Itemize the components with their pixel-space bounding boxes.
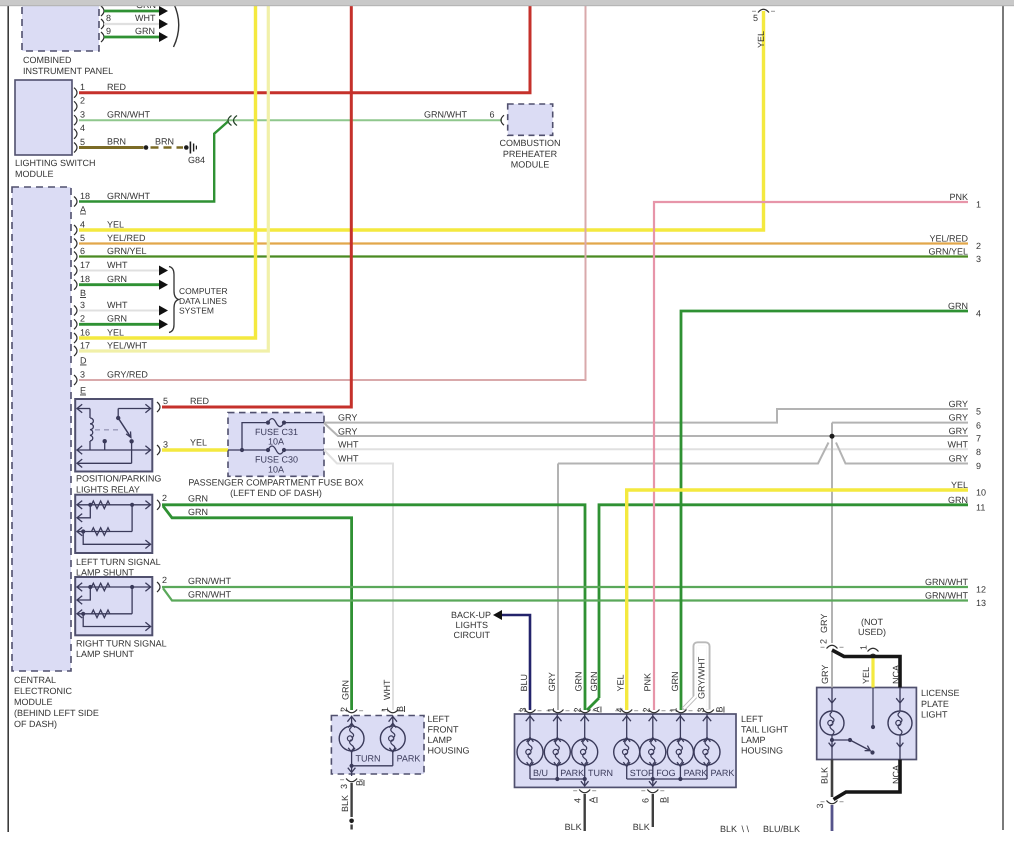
pin 8 combined panel: [101, 19, 104, 29]
svg-text:2: 2: [573, 707, 583, 712]
svg-text:YEL: YEL: [861, 667, 871, 684]
svg-text:1: 1: [80, 82, 85, 92]
svg-text:PARK: PARK: [684, 768, 708, 778]
pin 2 license: [827, 645, 838, 648]
ground G84: [184, 145, 189, 150]
svg-text:GRY: GRY: [547, 672, 557, 691]
svg-text:GRY/WHT: GRY/WHT: [696, 656, 706, 699]
svg-text:GRN/YEL: GRN/YEL: [107, 246, 147, 256]
svg-text:5: 5: [753, 13, 758, 23]
wire GRY fuse second output line 7: [324, 423, 968, 436]
svg-text:SYSTEM: SYSTEM: [179, 306, 214, 316]
svg-text:4: 4: [615, 707, 625, 712]
svg-text:GRN: GRN: [107, 274, 127, 284]
svg-text:GRN/WHT: GRN/WHT: [107, 191, 150, 201]
svg-text:LICENSE: LICENSE: [921, 688, 960, 698]
pin 3 tail GRY/WHT: [703, 710, 714, 713]
pin 3 front lamp bottom: [346, 779, 357, 782]
svg-text:LAMP SHUNT: LAMP SHUNT: [76, 568, 134, 578]
svg-text:BLU: BLU: [519, 674, 529, 692]
pin 1 tail GRN: [676, 710, 687, 713]
svg-text:10A: 10A: [268, 437, 284, 447]
svg-text:E: E: [80, 386, 86, 396]
svg-text:B: B: [659, 797, 669, 803]
wire GRY branch line 6 right: [832, 422, 968, 424]
svg-text:GRN/WHT: GRN/WHT: [424, 109, 467, 119]
svg-text:GRN: GRN: [341, 680, 351, 700]
svg-text:TAIL LIGHT: TAIL LIGHT: [741, 725, 789, 735]
svg-text:1: 1: [380, 707, 390, 712]
svg-text:12: 12: [976, 585, 986, 595]
position/parking lights relay: [75, 399, 152, 472]
svg-text:1: 1: [669, 707, 679, 712]
svg-text:LIGHTS: LIGHTS: [455, 620, 488, 630]
svg-text:GRY: GRY: [338, 413, 357, 423]
svg-text:WHT: WHT: [107, 300, 128, 310]
pin 4 central module: [74, 225, 77, 235]
svg-text:4: 4: [572, 798, 582, 803]
wire BLK license left leg: [831, 760, 834, 798]
svg-text:TURN: TURN: [356, 754, 381, 764]
svg-text:STOP: STOP: [630, 768, 654, 778]
svg-text:GRN: GRN: [188, 494, 208, 504]
pin 2 tail GRN: [580, 710, 591, 713]
tail lamp PARK at x=680.4: [679, 714, 681, 740]
pin 2 left shunt: [157, 500, 160, 510]
svg-text:YEL/RED: YEL/RED: [107, 233, 146, 243]
svg-text:2: 2: [976, 241, 981, 251]
wire GRN to right edge 4: [681, 311, 968, 710]
svg-text:WHT: WHT: [107, 260, 128, 270]
svg-text:MODULE: MODULE: [14, 697, 53, 707]
svg-text:2: 2: [642, 707, 652, 712]
svg-text:2: 2: [819, 639, 829, 644]
pin 6 tail bottom: [647, 790, 658, 793]
svg-text:3: 3: [80, 300, 85, 310]
computer data lines brace: [169, 267, 179, 333]
svg-text:WHT: WHT: [382, 679, 392, 700]
svg-text:PARK: PARK: [560, 768, 584, 778]
svg-text:3: 3: [80, 109, 85, 119]
front lamp ground bus: [352, 765, 393, 767]
svg-text:RED: RED: [107, 82, 127, 92]
svg-text:GRY: GRY: [819, 614, 829, 633]
pin 3 tail BLU: [525, 710, 536, 713]
relay internal wiring: [77, 408, 91, 410]
pin 2 lighting switch: [74, 101, 77, 111]
svg-text:(LEFT END OF DASH): (LEFT END OF DASH): [230, 488, 322, 498]
fuse C30: [228, 449, 268, 451]
wire GRN diagonal into pin 2: [587, 698, 599, 710]
svg-text:CENTRAL: CENTRAL: [14, 675, 56, 685]
tail lamp FOG at x=652.8: [652, 714, 654, 740]
svg-text:TURN: TURN: [588, 768, 613, 778]
pin 1 lighting switch: [74, 88, 77, 98]
svg-text:YEL: YEL: [107, 327, 124, 337]
svg-text:HOUSING: HOUSING: [428, 746, 470, 756]
svg-text:LEFT TURN SIGNAL: LEFT TURN SIGNAL: [76, 557, 161, 567]
pin 2 right shunt: [157, 582, 160, 592]
svg-text:4: 4: [80, 123, 85, 133]
pin 3 lighting switch: [74, 115, 77, 125]
svg-text:YEL/RED: YEL/RED: [929, 234, 968, 244]
svg-text:GRN: GRN: [589, 672, 599, 692]
svg-text:YEL: YEL: [190, 437, 207, 447]
svg-text:4: 4: [976, 309, 981, 319]
svg-text:OF DASH): OF DASH): [14, 719, 57, 729]
svg-text:GRN: GRN: [107, 314, 127, 324]
svg-text:PREHEATER: PREHEATER: [503, 149, 558, 159]
svg-text:BACK-UP: BACK-UP: [451, 610, 491, 620]
svg-text:3: 3: [976, 254, 981, 264]
svg-text:8: 8: [976, 447, 981, 457]
svg-text:WHT: WHT: [338, 440, 359, 450]
svg-text:17: 17: [80, 340, 90, 350]
svg-text:LIGHTS RELAY: LIGHTS RELAY: [76, 485, 140, 495]
svg-text:COMBINED: COMBINED: [23, 55, 72, 65]
svg-text:RED: RED: [190, 396, 210, 406]
wire BLK tail right ground: [652, 794, 654, 827]
svg-text:A: A: [80, 205, 86, 215]
svg-text:18: 18: [80, 274, 90, 284]
svg-text:NCA: NCA: [891, 765, 901, 784]
svg-text:GRY: GRY: [820, 665, 830, 684]
svg-text:11: 11: [976, 503, 985, 513]
svg-text:YEL/WHT: YEL/WHT: [107, 340, 148, 350]
wire NCA license right leg: [834, 760, 901, 800]
wire BLU/BLK down: [831, 805, 834, 831]
svg-text:10: 10: [976, 488, 986, 498]
svg-text:GRN: GRN: [670, 672, 680, 692]
svg-text:B: B: [395, 706, 405, 712]
svg-text:GRY/RED: GRY/RED: [107, 369, 148, 379]
pin 17b central module: [74, 346, 77, 356]
relay bottom rail: [77, 462, 132, 464]
svg-text:D: D: [80, 356, 87, 366]
svg-text:GRY: GRY: [949, 399, 968, 409]
tail lamp PARK at x=707: [706, 714, 708, 740]
tail lamp TURN at x=584.7: [584, 714, 586, 740]
svg-text:BLK: BLK: [340, 795, 350, 812]
svg-text:2: 2: [80, 96, 85, 106]
tail lamp B/U at x=530: [529, 714, 531, 740]
pin 2 front lamp housing: [346, 710, 357, 713]
svg-text:BRN: BRN: [107, 137, 126, 147]
svg-text:GRN: GRN: [574, 672, 584, 692]
svg-text:BLK: BLK: [565, 822, 582, 832]
svg-text:RIGHT TURN SIGNAL: RIGHT TURN SIGNAL: [76, 639, 167, 649]
svg-text:FRONT: FRONT: [428, 725, 459, 735]
svg-text:5: 5: [163, 396, 168, 406]
svg-text:GRN/WHT: GRN/WHT: [188, 576, 231, 586]
pin 3 relay: [157, 445, 160, 455]
svg-text:GRN/YEL: GRN/YEL: [928, 247, 968, 257]
svg-text:3: 3: [339, 784, 349, 789]
tail lamp PARK at x=557.3: [556, 714, 558, 740]
svg-text:LEFT: LEFT: [428, 714, 451, 724]
wire YEL license not used: [871, 658, 874, 688]
combustion preheater module: [508, 104, 553, 135]
svg-text:A: A: [592, 706, 602, 712]
svg-text:(BEHIND LEFT SIDE: (BEHIND LEFT SIDE: [14, 708, 99, 718]
pin 2 tail PNK: [649, 710, 660, 713]
svg-text:FUSE C31: FUSE C31: [255, 427, 298, 437]
pin 1 license not used: [868, 648, 879, 656]
left tail light lamp housing: [515, 714, 737, 787]
svg-text:3: 3: [163, 439, 168, 449]
pin 3c central module: [74, 375, 77, 385]
svg-text:2: 2: [162, 575, 167, 585]
svg-text:1: 1: [546, 707, 556, 712]
svg-text:GRY: GRY: [949, 413, 968, 423]
svg-text:GRY: GRY: [949, 454, 968, 464]
svg-text:YEL: YEL: [616, 674, 626, 691]
svg-text:COMBUSTION: COMBUSTION: [499, 138, 560, 148]
svg-text:2: 2: [80, 314, 85, 324]
left turn signal lamp shunt: [75, 495, 152, 553]
group arc: [174, 3, 179, 47]
wire WHT pin 8: [104, 23, 159, 25]
wire GRY license pigtail: [831, 652, 833, 688]
pin 3b central module: [74, 306, 77, 316]
right turn signal lamp shunt: [75, 577, 152, 635]
svg-text:FOG: FOG: [656, 768, 676, 778]
svg-text:GRN/WHT: GRN/WHT: [188, 590, 231, 600]
relay mid rail to pin 3: [77, 449, 151, 451]
svg-text:GRN: GRN: [948, 495, 968, 505]
pin 2 central module: [74, 319, 77, 329]
wire BLK front lamp ground: [350, 783, 352, 817]
wire GRY fuse C31 output to right edge 5 and 6: [324, 409, 968, 423]
left shunt internal resistors: [77, 504, 151, 506]
svg-text:PLATE: PLATE: [921, 699, 949, 709]
lighting switch module: [15, 80, 72, 155]
tail right bus: [627, 778, 707, 780]
svg-text:PARK: PARK: [711, 768, 735, 778]
svg-text:LEFT: LEFT: [741, 714, 764, 724]
wire YEL to right edge 10: [627, 490, 968, 710]
turn lamp: [351, 716, 353, 727]
svg-text:YEL: YEL: [951, 480, 968, 490]
wire NCA thick from pin 2: [832, 650, 900, 688]
svg-text:G84: G84: [188, 155, 205, 165]
svg-text:HOUSING: HOUSING: [741, 746, 783, 756]
wire BLK tail left ground: [584, 794, 586, 831]
splice dot on BRN: [144, 145, 149, 150]
svg-text:1: 1: [976, 200, 981, 210]
pin 18b central module: [74, 280, 77, 290]
wire GRN combined panel top pin: [101, 6, 104, 16]
svg-text:6: 6: [976, 420, 981, 430]
svg-text:WHT: WHT: [135, 13, 156, 23]
wire WHT fuse C30 output line 8: [324, 448, 968, 450]
wire WHT fuse C30 second output to front lamp: [324, 450, 393, 710]
svg-text:3: 3: [518, 707, 528, 712]
svg-text:8: 8: [106, 13, 111, 23]
svg-text:BRN: BRN: [155, 137, 174, 147]
svg-text:GRN/WHT: GRN/WHT: [107, 109, 150, 119]
yellow stub contact: [872, 688, 874, 728]
license plate light: [817, 688, 917, 760]
svg-text:LAMP SHUNT: LAMP SHUNT: [76, 649, 134, 659]
svg-text:WHT: WHT: [338, 454, 359, 464]
pin 18 central module: [74, 197, 77, 207]
svg-text:INSTRUMENT PANEL: INSTRUMENT PANEL: [23, 66, 113, 76]
svg-text:3: 3: [696, 707, 706, 712]
svg-text:3: 3: [80, 369, 85, 379]
svg-text:LAMP: LAMP: [428, 735, 453, 745]
svg-text:POSITION/PARKING: POSITION/PARKING: [76, 474, 161, 484]
pin 4 tail YEL: [621, 710, 632, 713]
svg-text:WHT: WHT: [948, 439, 969, 449]
pin 5 central module: [74, 239, 77, 249]
svg-text:9: 9: [106, 26, 111, 36]
license lamp right: [899, 688, 901, 712]
pin 1 front lamp housing: [387, 710, 398, 713]
svg-text:9: 9: [976, 461, 981, 471]
svg-text:LIGHTING SWITCH: LIGHTING SWITCH: [15, 158, 96, 168]
svg-text:GRN: GRN: [948, 301, 968, 311]
svg-text:(NOT: (NOT: [861, 617, 883, 627]
svg-text:MODULE: MODULE: [15, 169, 54, 179]
fuse C31: [266, 421, 270, 425]
wire BLU to tail pin 3: [502, 615, 530, 710]
svg-text:5: 5: [80, 233, 85, 243]
svg-text:7: 7: [976, 434, 981, 444]
svg-text:BLK: BLK: [720, 824, 737, 834]
svg-text:16: 16: [80, 327, 90, 337]
svg-text:GRN/WHT: GRN/WHT: [925, 577, 968, 587]
pin 1 tail GRY: [553, 710, 564, 713]
svg-text:NCA: NCA: [891, 665, 901, 684]
central electronic module: [12, 187, 71, 671]
svg-text:PNK: PNK: [643, 673, 653, 692]
svg-text:5: 5: [80, 137, 85, 147]
left front lamp housing: [331, 716, 424, 775]
svg-text:4: 4: [80, 219, 85, 229]
svg-text:GRN: GRN: [188, 507, 208, 517]
svg-text:2: 2: [339, 707, 349, 712]
svg-text:B: B: [80, 288, 86, 298]
pin 17 central module: [74, 266, 77, 276]
svg-text:6: 6: [80, 246, 85, 256]
wire PNK to right edge 1: [654, 202, 968, 710]
relay coil: [90, 418, 93, 441]
svg-text:YEL: YEL: [756, 31, 766, 48]
wire GRY tail pin1 branch line 9: [557, 464, 559, 711]
svg-text:3: 3: [815, 803, 825, 808]
svg-text:PNK: PNK: [949, 192, 968, 202]
combined instrument panel: [22, 0, 99, 51]
svg-text:10A: 10A: [268, 465, 284, 475]
svg-text:GRY: GRY: [949, 426, 968, 436]
svg-text:YEL: YEL: [107, 219, 124, 229]
pin 16 central module: [74, 333, 77, 343]
svg-text:GRN/WHT: GRN/WHT: [925, 591, 968, 601]
svg-text:GRN: GRN: [135, 26, 155, 36]
pin 5 lighting switch: [74, 143, 77, 153]
svg-text:13: 13: [976, 598, 986, 608]
svg-text:PARK: PARK: [397, 754, 421, 764]
relay top rail to pin 5: [118, 408, 150, 410]
park lamp: [392, 716, 394, 727]
svg-text:BLK: BLK: [820, 767, 830, 784]
tail left bus: [530, 778, 585, 780]
wire GRY vertical to license plate light: [831, 423, 833, 643]
pin 3 license: [827, 801, 838, 804]
svg-text:LAMP: LAMP: [741, 735, 766, 745]
top scrollbar strip: [0, 0, 1014, 6]
fuse box bus: [242, 423, 268, 450]
svg-text:B/U: B/U: [533, 768, 548, 778]
wire GRN/WHT loop tail pin3 to pin1: [683, 644, 708, 710]
svg-text:COMPUTER: COMPUTER: [179, 286, 228, 296]
svg-text:1: 1: [859, 645, 869, 650]
svg-text:2: 2: [162, 493, 167, 503]
right shunt internal resistors: [77, 586, 151, 588]
svg-text:6: 6: [490, 109, 495, 119]
pin 5 relay: [157, 402, 160, 412]
license lamp left: [831, 688, 833, 712]
splice dot on line 7: [830, 434, 835, 439]
wire GRN pin 9: [104, 36, 159, 39]
svg-text:LIGHT: LIGHT: [921, 710, 948, 720]
pin 4 tail bottom: [579, 790, 590, 793]
relay contact stub: [104, 442, 106, 450]
pin 4 lighting switch: [74, 129, 77, 139]
svg-text:CIRCUIT: CIRCUIT: [454, 630, 491, 640]
license switch: [830, 738, 834, 742]
svg-text:FUSE C30: FUSE C30: [255, 455, 298, 465]
svg-text:BLK: BLK: [633, 822, 650, 832]
relay dashed link: [95, 429, 119, 431]
relay switch: [117, 409, 119, 418]
svg-text:PASSENGER COMPARTMENT FUSE BOX: PASSENGER COMPARTMENT FUSE BOX: [188, 478, 363, 488]
svg-text:17: 17: [80, 260, 90, 270]
svg-text:B: B: [355, 780, 365, 786]
pin 6 central module: [74, 252, 77, 262]
arrowheads to instrument cluster wires: [159, 6, 168, 16]
svg-text:6: 6: [640, 798, 650, 803]
top pin 5 of YEL wire: [758, 9, 769, 12]
svg-text:BLU/BLK: BLU/BLK: [763, 824, 800, 834]
pin 9 combined panel: [101, 32, 104, 42]
svg-text:MODULE: MODULE: [511, 160, 550, 170]
passenger compartment fuse box: [228, 413, 324, 477]
svg-text:ELECTRONIC: ELECTRONIC: [14, 686, 73, 696]
connector C1 double arcs: [228, 116, 237, 126]
svg-text:DATA LINES: DATA LINES: [179, 296, 227, 306]
tail lamp STOP at x=626.7: [626, 714, 628, 740]
wire GRN line 11 right: [599, 505, 968, 698]
svg-text:B: B: [715, 706, 725, 712]
svg-text:18: 18: [80, 191, 90, 201]
svg-text:USED): USED): [858, 627, 886, 637]
svg-text:A: A: [588, 797, 598, 803]
svg-text:5: 5: [976, 407, 981, 417]
